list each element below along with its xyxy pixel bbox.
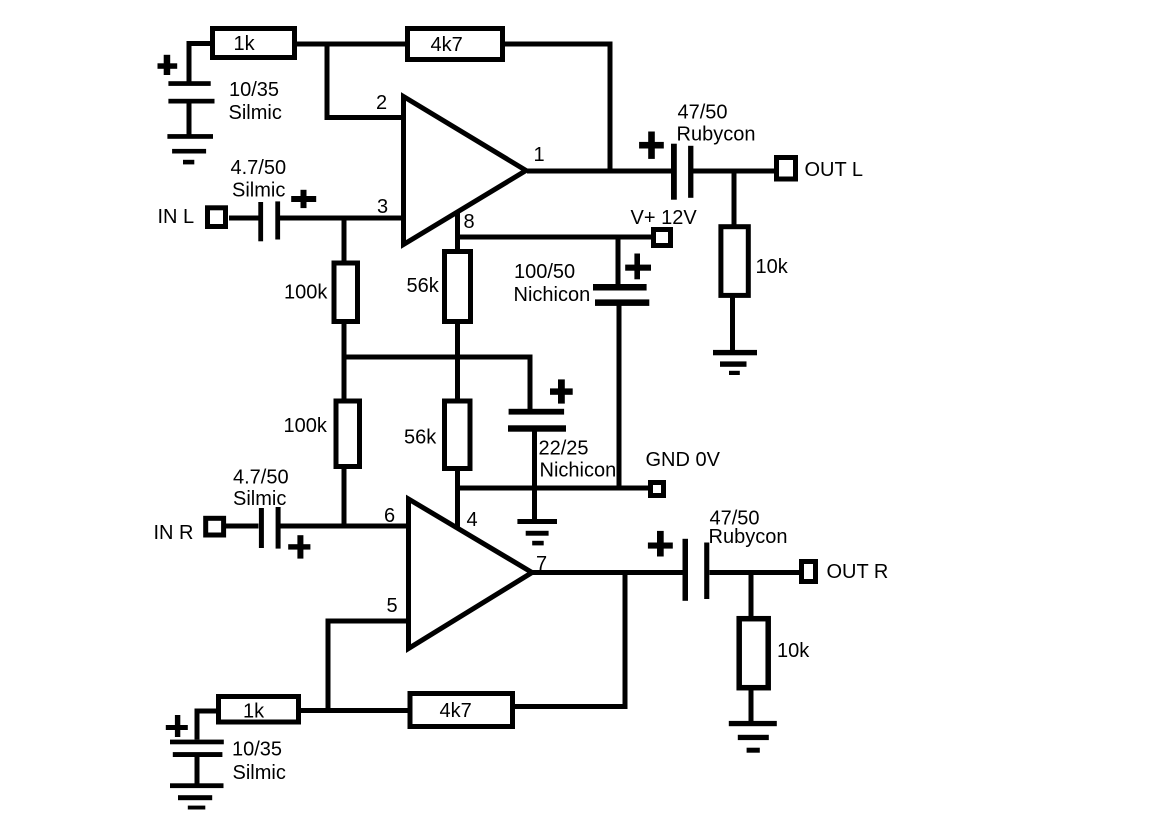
resistor R2 4k7	[408, 29, 503, 60]
svg-text:7: 7	[536, 553, 547, 575]
wire IN L to cap	[229, 216, 259, 221]
svg-text:1k: 1k	[243, 701, 265, 723]
wire junction down to pin 2	[327, 44, 404, 118]
capacitor C1 10/35 plates	[168, 81, 210, 86]
svg-text:10/35: 10/35	[232, 739, 282, 761]
ground below 10k R7	[713, 350, 757, 355]
capacitor C4 plus	[634, 254, 640, 280]
wire 10/35 2 to ground	[195, 757, 200, 785]
resistor R3 100k	[334, 263, 358, 322]
capacitor C8 plus	[175, 715, 180, 737]
svg-text:Rubycon: Rubycon	[709, 526, 788, 548]
terminal V+ 12V	[654, 230, 671, 246]
svg-text:4k7: 4k7	[431, 34, 463, 56]
wire cap to pin 3	[279, 216, 404, 221]
ground below 10k R8	[729, 721, 777, 726]
ground below C5	[517, 519, 557, 524]
capacitor C3 plus	[648, 132, 655, 159]
capacitor C6 plus	[297, 535, 303, 558]
svg-text:8: 8	[464, 211, 475, 233]
op-amp U1b	[409, 499, 533, 649]
svg-text:1k: 1k	[234, 33, 256, 55]
svg-text:10k: 10k	[756, 256, 789, 278]
wire op-amp U2 output	[533, 570, 683, 575]
wire output node down to 10k	[732, 171, 737, 225]
wire pin 8 stub	[455, 208, 460, 249]
resistor R4 56k	[445, 252, 471, 322]
wire 10k 2 to ground	[749, 688, 754, 722]
svg-text:6: 6	[384, 505, 395, 527]
wire op-amp U1 output	[527, 169, 673, 174]
svg-text:Silmic: Silmic	[232, 180, 285, 202]
capacitor C7 47/50 plates	[683, 539, 689, 601]
svg-text:IN R: IN R	[154, 522, 194, 544]
svg-text:GND 0V: GND 0V	[646, 449, 721, 471]
svg-text:V+ 12V: V+ 12V	[631, 207, 698, 229]
svg-text:10k: 10k	[777, 640, 810, 662]
svg-text:100k: 100k	[284, 415, 328, 437]
svg-text:22/25: 22/25	[539, 438, 589, 460]
wire 1k 2 left to 10/35 cap	[197, 711, 218, 740]
wire 1k 2 to 4k7 2	[299, 708, 409, 713]
capacitor C6 4.7/50 plates	[259, 508, 264, 548]
wire output 2 node down to 10k	[749, 573, 754, 617]
svg-text:OUT R: OUT R	[827, 561, 889, 583]
svg-text:4.7/50: 4.7/50	[231, 157, 287, 179]
wire IN R to cap	[226, 524, 259, 529]
capacitor C2 plus	[301, 190, 307, 208]
svg-text:10/35: 10/35	[229, 79, 279, 101]
resistor R10 4k7	[410, 694, 513, 727]
wire mid rail down to 100k 2	[342, 357, 347, 399]
resistor R6 56k	[445, 401, 471, 469]
svg-text:Silmic: Silmic	[229, 102, 282, 124]
svg-text:Rubycon: Rubycon	[677, 123, 756, 145]
resistor R7 10k	[721, 227, 748, 296]
wire cap to pin 6	[281, 524, 409, 529]
ground below C1	[167, 134, 213, 139]
svg-text:100/50: 100/50	[514, 261, 575, 283]
wire V+ rail	[458, 235, 652, 240]
svg-text:Silmic: Silmic	[233, 488, 286, 510]
svg-text:4.7/50: 4.7/50	[233, 466, 289, 488]
ground below C8	[170, 783, 224, 788]
capacitor C3 47/50 plates	[671, 144, 677, 200]
capacitor C1 plus	[164, 55, 171, 75]
svg-text:4k7: 4k7	[440, 700, 472, 722]
op-amp U1a	[404, 97, 527, 245]
svg-text:IN L: IN L	[158, 206, 195, 228]
wire pin 5 to lower junction	[328, 621, 409, 711]
wire 56k down through mid rail	[455, 324, 460, 399]
svg-text:5: 5	[387, 595, 398, 617]
svg-text:56k: 56k	[407, 275, 440, 297]
wire 4k7 right feedback down	[503, 44, 610, 171]
wire pin 4 stub	[455, 470, 460, 528]
svg-text:1: 1	[534, 144, 545, 166]
wire 100k to mid rail	[342, 324, 347, 359]
terminal OUT L	[777, 158, 796, 180]
wire cap to OUT R	[710, 570, 802, 575]
capacitor C2 4.7/50 plates	[258, 202, 263, 241]
capacitor C5 22/25 plates	[509, 409, 564, 415]
capacitor C5 plus	[558, 379, 565, 403]
terminal OUT R	[802, 562, 816, 582]
wire 100/50 down to gnd rail	[617, 305, 622, 490]
wire mid rail with drop to 22/25	[342, 357, 531, 410]
capacitor C4 100/50 plates	[593, 284, 647, 291]
svg-text:3: 3	[377, 196, 388, 218]
wire V+ down to 100/50	[616, 237, 621, 284]
svg-text:4: 4	[467, 509, 478, 531]
svg-text:Nichicon: Nichicon	[514, 284, 591, 306]
svg-text:47/50: 47/50	[678, 102, 728, 124]
svg-text:100k: 100k	[284, 282, 328, 304]
wire 1k to 4k7	[295, 42, 407, 47]
wire 1k left to 10/35 cap	[189, 44, 212, 82]
wire 100k 2 to IN R line	[342, 469, 347, 526]
terminal GND 0V	[651, 483, 664, 496]
resistor R8 10k	[739, 619, 768, 688]
terminal IN L	[208, 208, 226, 227]
svg-text:Silmic: Silmic	[233, 762, 286, 784]
resistor R5 100k	[336, 401, 360, 467]
wire 10/35 cap to ground	[187, 103, 192, 135]
wire output 2 feedback down to 4k7	[515, 573, 626, 707]
svg-text:Nichicon: Nichicon	[540, 460, 617, 482]
capacitor C8 10/35 plates	[170, 740, 224, 745]
wire pin3 node down to 100k	[342, 218, 347, 261]
svg-text:2: 2	[376, 92, 387, 114]
svg-text:56k: 56k	[404, 427, 437, 449]
wire gnd rail to GND terminal	[458, 486, 651, 491]
resistor R9 1k	[219, 697, 299, 723]
wire 22/25 bottom to ground	[532, 431, 537, 521]
capacitor C7 plus	[657, 531, 664, 557]
terminal IN R	[206, 518, 224, 535]
wire cap to OUT L	[693, 169, 776, 174]
resistor R1 1k	[213, 29, 295, 58]
svg-text:OUT L: OUT L	[805, 159, 864, 181]
wire 10k to ground	[730, 297, 735, 352]
